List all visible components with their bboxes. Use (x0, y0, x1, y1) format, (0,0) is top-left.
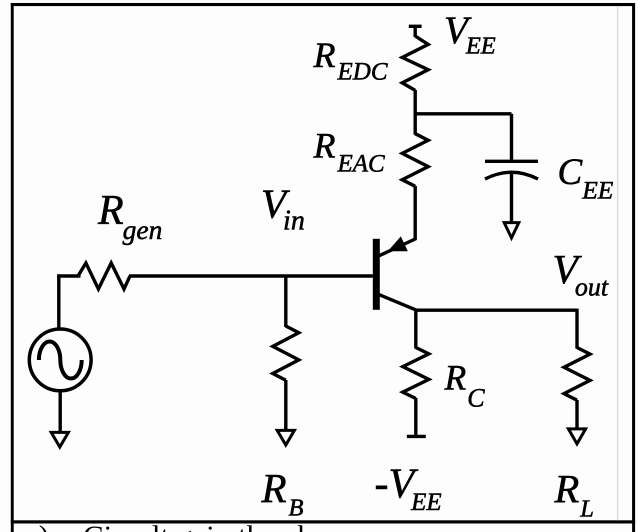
ground (below R_B) (277, 430, 294, 445)
svg-text:a): a) (25, 519, 49, 532)
resistor R_EDC (402, 36, 428, 90)
source V_gen (29, 274, 91, 390)
wire (59, 390, 62, 433)
wire (414, 398, 417, 436)
wire (base) (129, 274, 373, 277)
wire (collector node to V_out) (415, 309, 577, 312)
resistor R_C (403, 310, 429, 399)
node E / wire to capacitor (414, 112, 512, 115)
capacitor C_EE (485, 161, 538, 179)
svg-text:Circult gain the chosen area: Circult gain the chosen area (83, 519, 429, 532)
wire (414, 26, 417, 37)
resistor R_EAC (402, 114, 428, 187)
wire (284, 380, 287, 431)
resistor R_gen (57, 263, 130, 289)
ground (below V_gen) (51, 432, 68, 447)
wire (emitter) (414, 186, 417, 240)
ground (below C_EE) (504, 223, 519, 238)
transistor Q1 (PNP) (373, 238, 417, 310)
supply VEE terminal bar (409, 25, 422, 28)
wire (510, 114, 513, 162)
wire (575, 400, 578, 430)
ground (below R_L) (568, 429, 585, 444)
wire (510, 173, 513, 224)
supply -VEE terminal bar (407, 435, 426, 438)
wire (414, 90, 417, 115)
resistor R_B (273, 276, 299, 380)
resistor R_L (564, 309, 590, 401)
